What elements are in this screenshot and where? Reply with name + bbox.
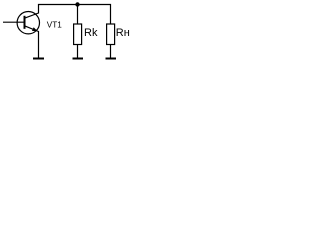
svg-text:Rн: Rн: [116, 27, 130, 39]
svg-text:VT1: VT1: [47, 20, 62, 29]
svg-text:Rk: Rk: [84, 27, 98, 39]
